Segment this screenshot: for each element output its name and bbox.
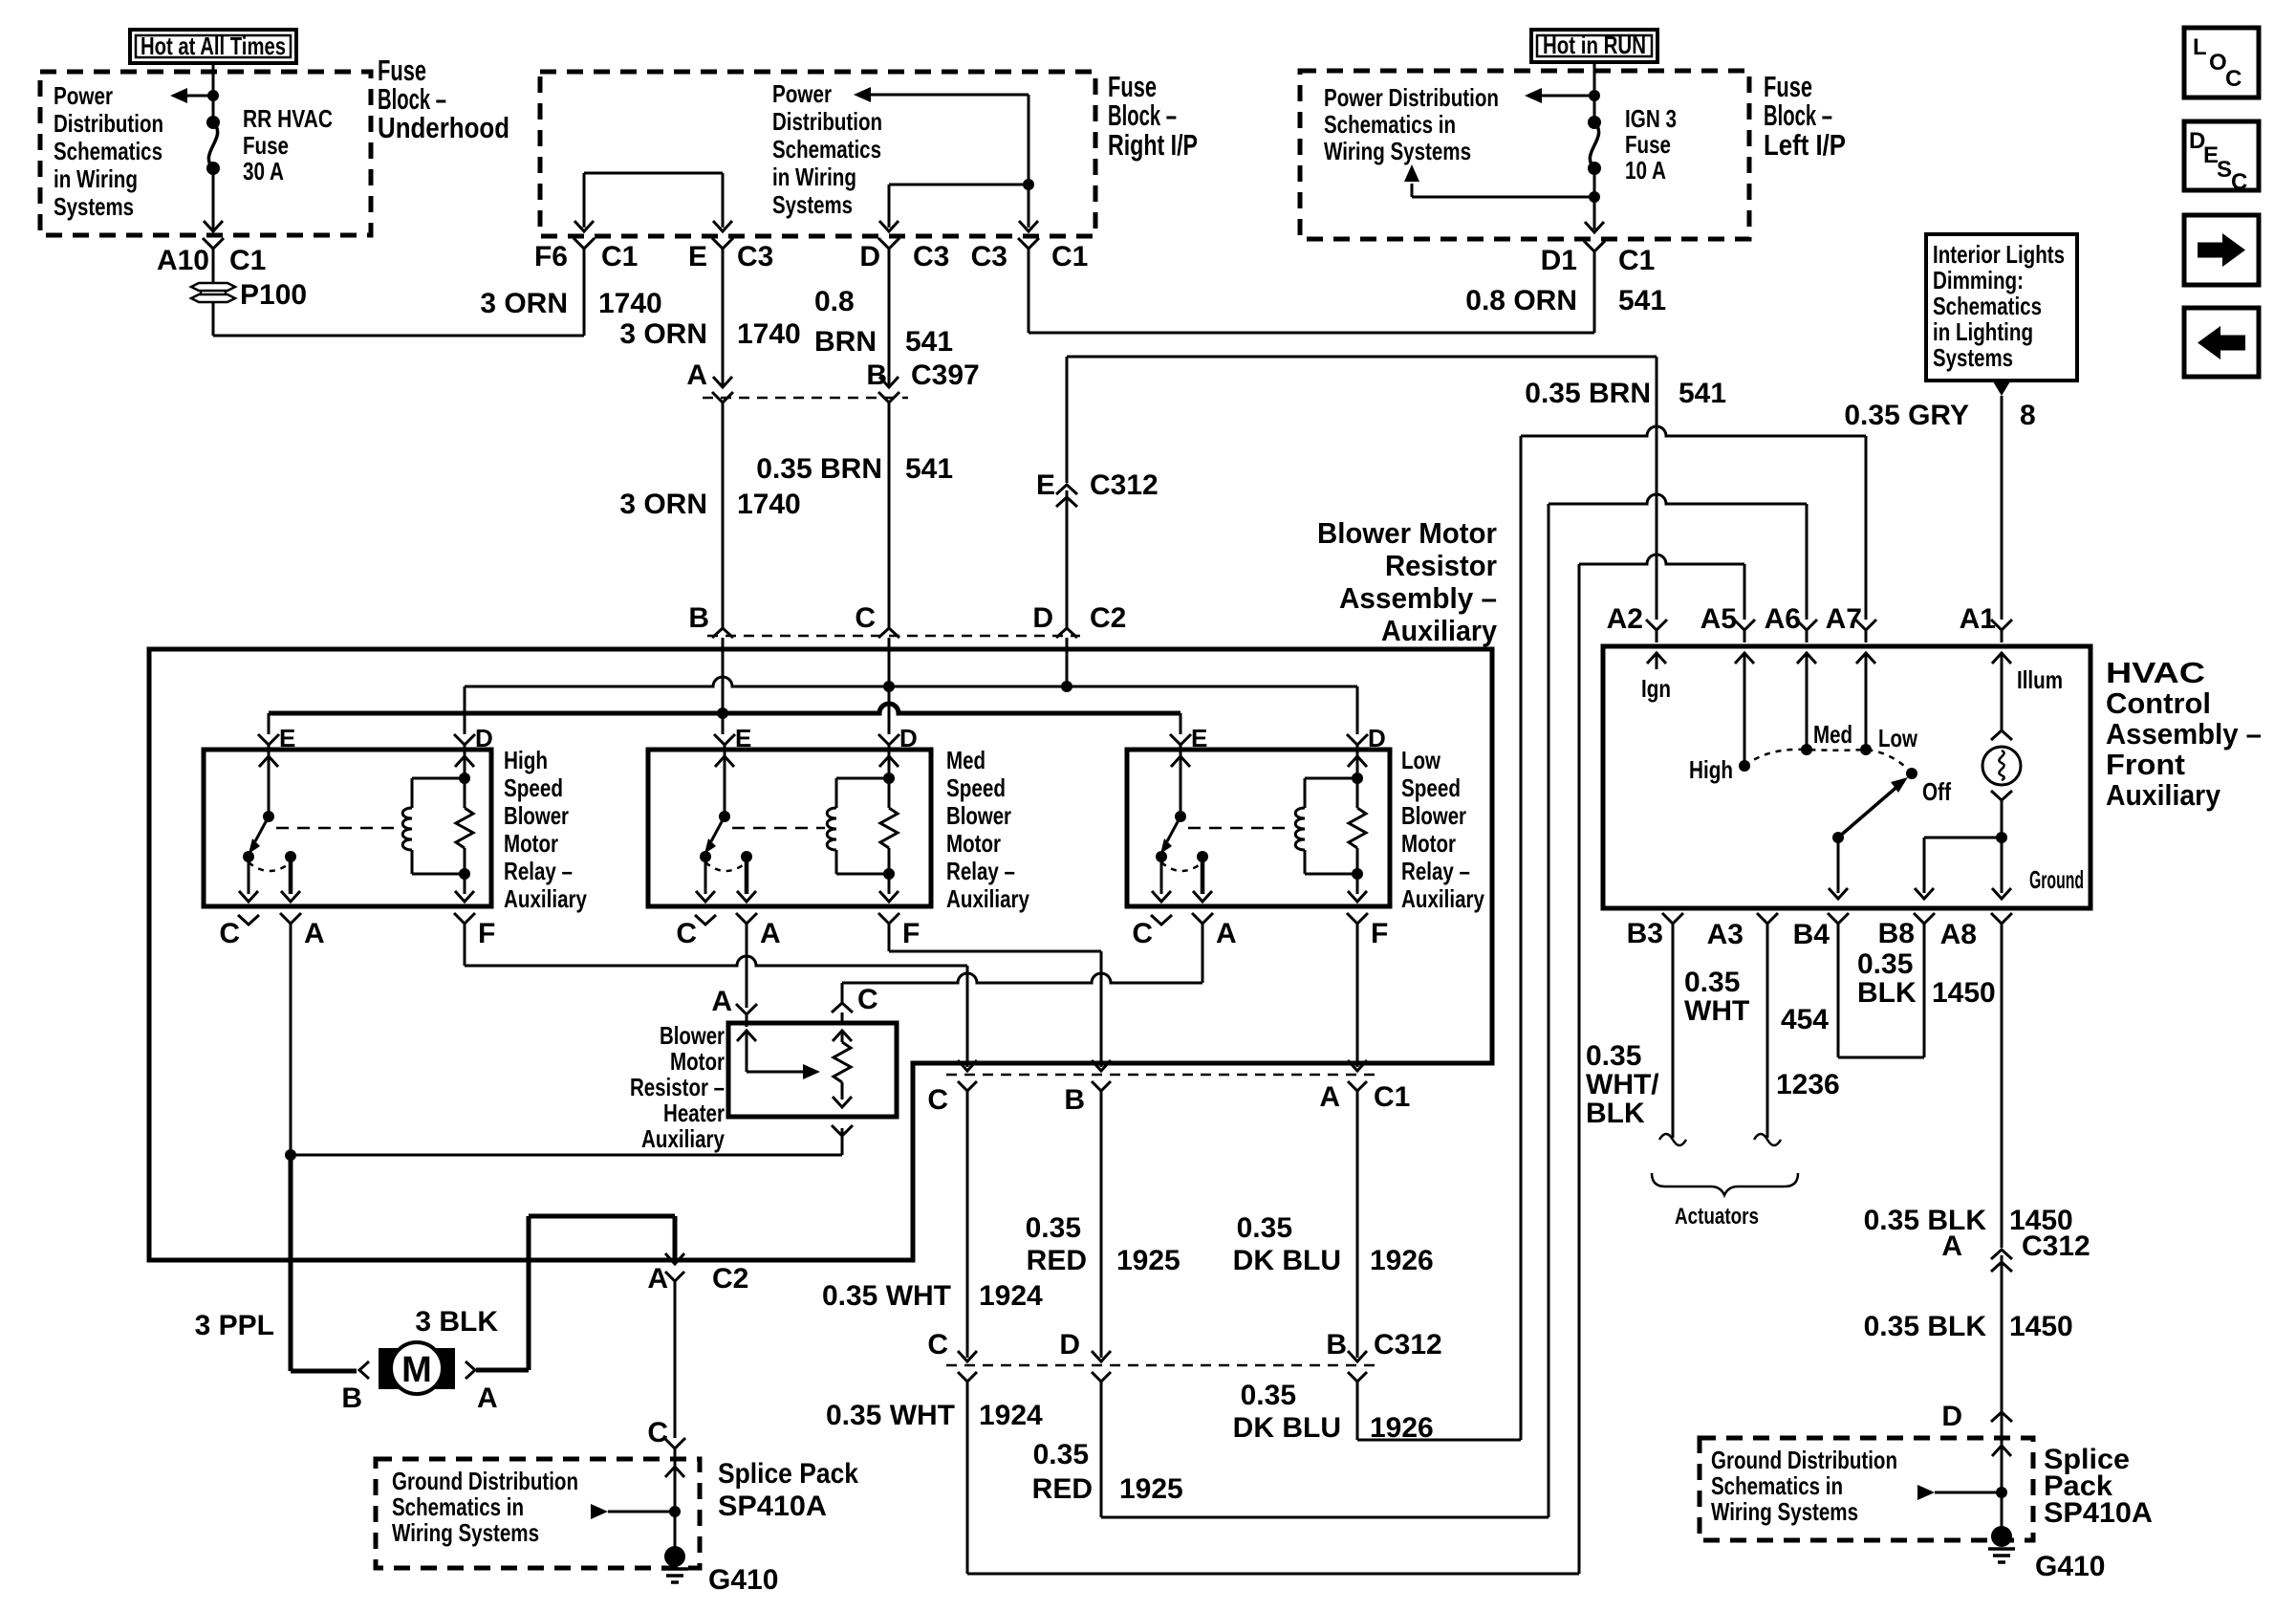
svg-text:F: F [902,918,920,949]
svg-text:Block –: Block – [1108,98,1177,132]
svg-text:C2: C2 [1090,602,1126,634]
svg-text:E: E [1036,469,1055,501]
svg-text:Relay –: Relay – [946,857,1015,885]
svg-text:F6: F6 [534,241,568,272]
svg-text:Power: Power [54,81,113,110]
svg-text:Ground Distribution: Ground Distribution [392,1467,578,1495]
svg-text:Off: Off [1922,777,1951,806]
svg-text:Systems: Systems [772,190,853,219]
svg-text:Actuators: Actuators [1675,1204,1759,1230]
svg-text:3 BLK: 3 BLK [415,1306,498,1338]
svg-text:0.8: 0.8 [814,286,855,317]
svg-text:C: C [927,1084,948,1116]
svg-text:Motor: Motor [1401,829,1456,858]
svg-text:0.8 ORN: 0.8 ORN [1465,285,1577,316]
svg-text:Ground: Ground [2029,865,2084,894]
svg-text:Ground Distribution: Ground Distribution [1711,1446,1897,1474]
svg-text:10 A: 10 A [1625,156,1666,185]
svg-text:F: F [1371,918,1388,949]
svg-text:S: S [2217,157,2232,183]
svg-text:C: C [1132,918,1153,949]
svg-text:DK BLU: DK BLU [1233,1245,1341,1276]
svg-text:C2: C2 [712,1263,748,1295]
svg-text:Auxiliary: Auxiliary [641,1124,725,1153]
svg-text:B: B [1326,1329,1347,1361]
svg-text:Speed: Speed [1401,773,1461,802]
svg-text:Schematics in: Schematics in [1711,1471,1843,1500]
svg-text:SP410A: SP410A [718,1491,827,1522]
svg-text:C: C [2231,169,2247,195]
svg-text:D: D [1059,1329,1080,1361]
svg-text:3 ORN: 3 ORN [619,318,707,350]
svg-text:in Wiring: in Wiring [772,163,856,191]
svg-text:1926: 1926 [1370,1412,1434,1444]
svg-text:BRN: BRN [814,326,877,358]
svg-text:WHT: WHT [1684,995,1749,1027]
svg-text:C312: C312 [2022,1230,2090,1262]
svg-text:E: E [688,241,707,272]
svg-text:A5: A5 [1700,603,1737,635]
svg-text:A7: A7 [1826,603,1862,635]
svg-text:0.35: 0.35 [1241,1380,1296,1411]
svg-text:Blower: Blower [946,801,1011,830]
svg-text:A10: A10 [157,245,209,276]
svg-text:Assembly –: Assembly – [2106,717,2262,751]
svg-text:B: B [866,359,887,391]
svg-text:0.35: 0.35 [1684,967,1740,998]
svg-text:RR HVAC: RR HVAC [243,104,333,133]
svg-text:C1: C1 [601,241,638,272]
svg-text:RED: RED [1032,1473,1093,1505]
svg-text:DK BLU: DK BLU [1233,1412,1341,1444]
svg-text:A1: A1 [1960,603,1996,635]
svg-text:D: D [1941,1401,1962,1432]
svg-text:0.35 GRY: 0.35 GRY [1844,400,1969,431]
svg-text:0.35 BRN: 0.35 BRN [756,453,882,485]
svg-text:A: A [647,1263,668,1295]
svg-text:RED: RED [1027,1245,1087,1276]
svg-text:C3: C3 [971,241,1007,272]
svg-text:1740: 1740 [737,318,801,350]
svg-text:1925: 1925 [1119,1473,1183,1505]
svg-text:541: 541 [1679,378,1726,409]
svg-text:Med: Med [946,746,986,774]
svg-text:Block –: Block – [1764,98,1832,132]
svg-text:BLK: BLK [1857,977,1917,1009]
svg-text:Wiring Systems: Wiring Systems [392,1518,539,1547]
svg-text:1924: 1924 [979,1400,1043,1431]
svg-text:Relay –: Relay – [1401,857,1470,885]
svg-text:Speed: Speed [946,773,1006,802]
svg-text:C: C [647,1417,668,1448]
svg-text:C1: C1 [1374,1081,1410,1113]
svg-text:Right I/P: Right I/P [1108,128,1198,162]
svg-text:Systems: Systems [54,192,134,221]
svg-text:Schematics in: Schematics in [1324,110,1456,139]
svg-text:454: 454 [1781,1004,1829,1035]
svg-text:C1: C1 [229,245,266,276]
svg-text:541: 541 [905,326,953,358]
svg-text:P100: P100 [240,279,307,311]
svg-text:0.35 BRN: 0.35 BRN [1525,378,1651,409]
svg-text:High: High [504,746,548,774]
svg-text:A8: A8 [1940,919,1977,950]
svg-text:Assembly –: Assembly – [1339,581,1497,615]
svg-text:30 A: 30 A [243,157,284,185]
svg-text:A2: A2 [1607,603,1643,635]
svg-text:B: B [688,602,709,634]
svg-text:Hot in RUN: Hot in RUN [1543,31,1646,59]
svg-text:C3: C3 [913,241,949,272]
svg-text:Hot at All Times: Hot at All Times [141,32,286,60]
svg-text:1926: 1926 [1370,1245,1434,1276]
svg-text:L: L [2193,34,2207,60]
svg-text:Med: Med [1813,720,1852,749]
svg-text:Power: Power [772,79,832,108]
svg-text:0.35 WHT: 0.35 WHT [822,1280,951,1312]
svg-text:SP410A: SP410A [2044,1497,2153,1529]
svg-text:G410: G410 [708,1564,778,1596]
svg-text:1925: 1925 [1116,1245,1180,1276]
svg-text:D1: D1 [1541,245,1577,276]
svg-text:Blower: Blower [504,801,569,830]
svg-text:F: F [478,918,495,949]
svg-text:Systems: Systems [1933,343,2013,372]
svg-text:0.35: 0.35 [1026,1212,1081,1244]
svg-text:Schematics: Schematics [54,137,162,165]
svg-text:A6: A6 [1765,603,1801,635]
svg-text:Schematics: Schematics [772,135,881,163]
svg-text:Speed: Speed [504,773,563,802]
svg-text:Ign: Ign [1641,674,1671,703]
svg-text:Fuse: Fuse [1625,130,1671,159]
svg-text:0.35: 0.35 [1033,1439,1089,1470]
svg-text:G410: G410 [2035,1551,2105,1582]
svg-text:C: C [2225,66,2242,92]
svg-text:Underhood: Underhood [378,111,509,144]
svg-text:Auxiliary: Auxiliary [946,884,1029,913]
svg-text:C1: C1 [1051,241,1088,272]
svg-text:C312: C312 [1374,1329,1442,1361]
svg-text:0.35: 0.35 [1237,1212,1292,1244]
svg-text:C312: C312 [1090,469,1159,501]
svg-text:1450: 1450 [1932,977,1996,1009]
svg-text:C: C [676,918,697,949]
svg-text:D: D [1032,602,1053,634]
svg-text:A: A [760,918,781,949]
svg-text:C: C [927,1329,948,1361]
svg-text:High: High [1689,755,1733,784]
svg-text:3 PPL: 3 PPL [195,1310,274,1341]
svg-text:Wiring Systems: Wiring Systems [1711,1497,1858,1526]
svg-text:A3: A3 [1707,919,1744,950]
svg-text:Relay –: Relay – [504,857,573,885]
svg-text:Distribution: Distribution [772,107,882,136]
svg-text:Dimming:: Dimming: [1933,266,2024,294]
svg-text:Schematics in: Schematics in [392,1492,524,1521]
svg-text:A: A [1941,1230,1962,1262]
svg-text:Power Distribution: Power Distribution [1324,83,1499,112]
svg-text:C: C [855,602,876,634]
svg-text:B8: B8 [1878,918,1915,949]
svg-text:WHT/: WHT/ [1586,1069,1659,1100]
svg-text:Control: Control [2106,686,2211,720]
svg-text:Fuse: Fuse [243,131,289,160]
svg-text:Left I/P: Left I/P [1764,128,1846,162]
svg-text:1740: 1740 [598,288,662,319]
svg-text:A: A [304,918,325,949]
svg-text:1450: 1450 [2009,1311,2073,1342]
svg-text:D: D [859,241,880,272]
svg-text:1924: 1924 [979,1280,1043,1312]
svg-text:C: C [857,984,878,1015]
svg-text:A: A [686,359,707,391]
svg-text:Front: Front [2106,748,2185,781]
svg-text:Motor: Motor [504,829,558,858]
svg-text:A: A [1319,1081,1340,1113]
svg-text:0.35: 0.35 [1857,948,1913,980]
svg-text:541: 541 [1618,285,1666,316]
svg-text:A: A [477,1382,498,1414]
svg-text:C: C [219,918,240,949]
svg-text:Auxiliary: Auxiliary [2106,778,2221,812]
svg-text:Heater: Heater [663,1099,725,1127]
svg-text:Auxiliary: Auxiliary [1381,614,1498,647]
svg-text:Blower: Blower [660,1021,725,1050]
svg-text:C1: C1 [1618,245,1655,276]
svg-text:Low: Low [1401,746,1441,774]
svg-text:3 ORN: 3 ORN [480,288,568,319]
svg-text:Splice Pack: Splice Pack [718,1458,858,1490]
svg-text:3 ORN: 3 ORN [619,489,707,520]
svg-text:B3: B3 [1627,918,1663,949]
svg-text:M: M [401,1350,432,1390]
svg-text:Interior Lights: Interior Lights [1933,240,2065,269]
svg-text:HVAC: HVAC [2106,656,2205,689]
svg-text:Blower Motor: Blower Motor [1317,516,1497,550]
svg-text:0.35: 0.35 [1586,1040,1641,1072]
svg-text:1740: 1740 [737,489,801,520]
svg-text:541: 541 [905,453,953,485]
svg-text:Blower: Blower [1401,801,1466,830]
svg-text:BLK: BLK [1586,1098,1645,1129]
svg-text:Wiring Systems: Wiring Systems [1324,137,1471,165]
svg-text:Auxiliary: Auxiliary [1401,884,1484,913]
svg-text:0.35 BLK: 0.35 BLK [1864,1205,1987,1236]
svg-text:0.35 BLK: 0.35 BLK [1864,1311,1987,1342]
svg-text:O: O [2209,50,2227,76]
svg-text:C397: C397 [911,359,980,391]
svg-text:B: B [1064,1084,1085,1116]
svg-text:B: B [341,1382,362,1414]
svg-text:Low: Low [1878,724,1918,752]
svg-text:C3: C3 [737,241,773,272]
svg-text:Distribution: Distribution [54,109,163,138]
svg-text:Resistor: Resistor [1385,549,1497,582]
svg-text:Resistor –: Resistor – [630,1073,725,1101]
svg-text:Illum: Illum [2017,665,2063,694]
svg-text:Schematics: Schematics [1933,292,2042,320]
svg-text:8: 8 [2020,400,2036,431]
svg-text:1236: 1236 [1776,1069,1840,1100]
svg-text:A: A [1216,918,1237,949]
svg-text:0.35 WHT: 0.35 WHT [826,1400,955,1431]
svg-text:Auxiliary: Auxiliary [504,884,587,913]
svg-text:in Wiring: in Wiring [54,164,138,193]
svg-text:in Lighting: in Lighting [1933,317,2033,346]
svg-text:Motor: Motor [670,1047,725,1076]
svg-text:A: A [711,986,732,1017]
svg-text:IGN 3: IGN 3 [1625,104,1677,133]
svg-text:B4: B4 [1793,919,1830,950]
svg-text:Motor: Motor [946,829,1001,858]
